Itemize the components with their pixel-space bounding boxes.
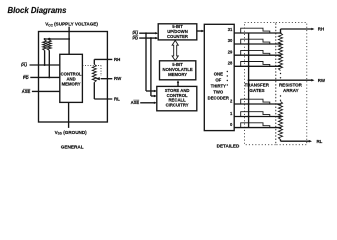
svg-text:CIRCUITRY: CIRCUITRY (166, 102, 189, 107)
svg-text:PD: PD (132, 35, 138, 40)
svg-text:ASE: ASE (131, 100, 140, 105)
svg-text:OF: OF (215, 78, 221, 83)
svg-text:COUNTER: COUNTER (167, 34, 188, 39)
svg-text:RH: RH (318, 27, 324, 32)
svg-text:MEMORY: MEMORY (62, 81, 81, 86)
svg-text:PD: PD (23, 75, 29, 80)
svg-text:Block Diagrams: Block Diagrams (8, 6, 68, 15)
svg-text:PU: PU (21, 63, 27, 68)
svg-text:TWO: TWO (213, 90, 224, 95)
svg-text:GENERAL: GENERAL (61, 144, 84, 149)
svg-text:ARRAY: ARRAY (283, 88, 299, 93)
svg-text:RW: RW (318, 78, 326, 83)
svg-text:28: 28 (228, 60, 233, 65)
svg-text:GATES: GATES (249, 88, 264, 93)
svg-text:30: 30 (228, 38, 233, 43)
svg-text:THIRTY: THIRTY (211, 84, 227, 89)
svg-text:31: 31 (228, 27, 233, 32)
svg-text:TRANSFER: TRANSFER (245, 83, 270, 88)
svg-text:VCC (SUPPLY VOLTAGE): VCC (SUPPLY VOLTAGE) (45, 22, 98, 28)
svg-text:MEMORY: MEMORY (168, 72, 187, 77)
svg-text:DETAILED: DETAILED (217, 144, 240, 149)
svg-text:RL: RL (114, 97, 120, 102)
svg-text:RH: RH (114, 57, 120, 62)
svg-text:DECODER: DECODER (208, 96, 229, 101)
svg-text:ASE: ASE (22, 89, 31, 94)
svg-text:ONE: ONE (214, 72, 223, 77)
svg-text:RW: RW (114, 76, 122, 81)
svg-text:RESISTOR: RESISTOR (279, 83, 303, 88)
svg-text:29: 29 (228, 49, 233, 54)
svg-text:VSS (GROUND): VSS (GROUND) (55, 130, 88, 136)
svg-text:RL: RL (317, 139, 323, 144)
